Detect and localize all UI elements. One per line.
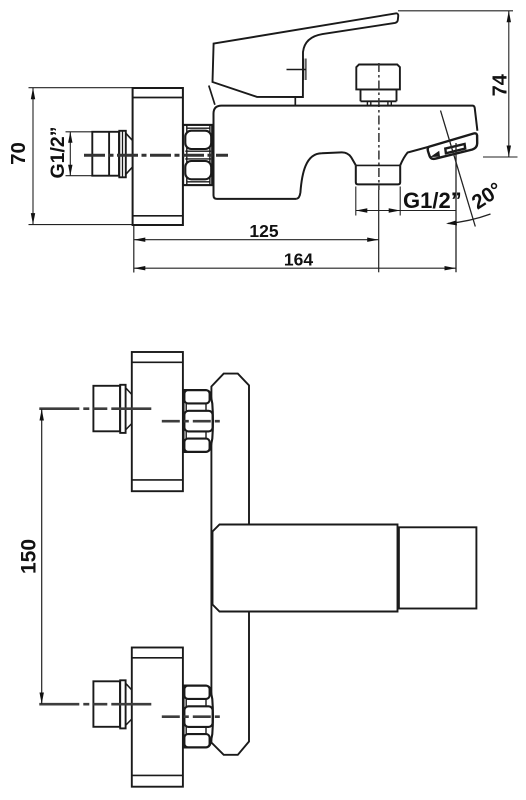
dimension 70 extension line top: [29, 87, 133, 89]
svg-text:164: 164: [284, 250, 313, 270]
20 degree reference line: [441, 111, 476, 227]
inlet union cone top: [126, 388, 132, 395]
dimension 74 arrow up: [507, 11, 511, 22]
handle lever (top view): [213, 13, 399, 97]
shower hose connector foot left: [367, 101, 370, 105]
inlet union flange: [120, 385, 125, 433]
handle index mark horizontal: [287, 69, 307, 71]
dimension 74 line: [508, 11, 510, 157]
hex nut (top view) outer: [183, 125, 212, 185]
dimension 74 extension top: [398, 10, 513, 12]
hex nut pillow top: [184, 390, 209, 403]
hex nut (top view) lower face pillow: [185, 161, 211, 179]
dimension 150 line: [41, 409, 43, 704]
hex nut band upper: [186, 403, 206, 410]
dimension G1/2 (left) extension line bottom: [66, 175, 93, 177]
outlet G1/2 arrow left: [356, 208, 368, 212]
handle skirt left edge: [209, 86, 215, 105]
spout boot (top view): [428, 133, 477, 159]
dimension G1/2 (left) line: [69, 132, 71, 176]
escutcheon lip top: [132, 361, 183, 363]
dimension 74 arrow down: [507, 146, 511, 158]
hex nut (top view) inner vertical line right: [209, 125, 211, 185]
dimension 164 arrow left: [134, 266, 146, 270]
dimension 125 arrow right: [367, 238, 379, 242]
dimension 125/164 left extension line: [133, 226, 135, 273]
vertical column body (front view): [211, 374, 249, 755]
svg-text:70: 70: [7, 142, 30, 165]
dimension 125 line: [134, 239, 379, 241]
hex nut (top view) upper face pillow: [185, 131, 211, 149]
wall plate lip line top: [133, 97, 183, 99]
dimension 164 line: [134, 267, 456, 269]
20 degree arc arrowhead: [446, 220, 457, 225]
dimension 125 arrow left: [134, 238, 146, 242]
spout tip vertical extension line: [455, 143, 457, 272]
outlet G1/2 extension line right: [399, 187, 401, 216]
svg-text:150: 150: [17, 539, 40, 574]
hex nut band lower: [186, 431, 206, 438]
outlet centerline extension (vertical): [378, 190, 380, 272]
dimension 70 arrow down: [31, 213, 35, 225]
wall plate lip line bottom: [133, 215, 183, 217]
inlet union fitting (top view) flange inner line: [122, 131, 124, 178]
hex nut pillow middle: [184, 411, 212, 432]
nut centerline (horizontal): [162, 420, 224, 423]
top mount group: [39, 352, 224, 491]
svg-text:125: 125: [249, 221, 278, 241]
outlet nipple top line: [356, 164, 400, 166]
hex nut (top view) top sliver line: [187, 127, 210, 129]
inlet union fitting (top view) body: [92, 132, 119, 176]
hex nut (top view) bottom sliver line: [187, 181, 210, 183]
shower hose connector (top view) upper block: [356, 65, 400, 90]
wall escutcheon (front view, top): [132, 352, 183, 491]
inlet union fitting (top view) divider line: [108, 132, 110, 176]
shower hose connector foot right: [388, 101, 391, 105]
dimension 70 extension line bottom: [29, 224, 133, 226]
bottom mount group (copy of top mount): [39, 648, 224, 787]
hex nut silhouette (front view): [184, 390, 213, 452]
inlet union fitting (top view) cone top edge: [126, 133, 133, 140]
dimension G1/2 (left) arrow up: [68, 132, 72, 143]
outlet G1/2 extension line left: [355, 187, 357, 216]
inlet union fitting (top view) cone bottom edge: [126, 167, 133, 174]
hex nut (top view) mid line lower: [185, 158, 211, 160]
dimension 150 arrow down: [40, 693, 44, 705]
svg-text:74: 74: [490, 73, 512, 96]
20 degree arc: [448, 214, 491, 224]
outlet G1/2 dimension line: [356, 210, 456, 212]
dimension 74 extension bottom: [483, 156, 518, 158]
hex nut (top view) inner vertical line left: [186, 125, 188, 185]
hex nut (top view) mid line upper: [185, 150, 211, 152]
mixer body underside fillet and flare: [296, 147, 429, 199]
inlet union fitting (top view) flange: [119, 131, 126, 178]
dimension 70 arrow up: [31, 88, 35, 100]
horizontal spout body (front view): [213, 525, 398, 612]
dimension 70 line: [32, 88, 34, 225]
shower hose connector (top view) lower band: [361, 89, 397, 101]
svg-text:20°: 20°: [468, 178, 507, 214]
escutcheon lip bottom: [132, 479, 183, 481]
shower connector centerline (dashed vertical): [378, 63, 380, 190]
handle index mark vertical: [303, 59, 305, 81]
dimension 150 arrow up: [40, 409, 44, 421]
inlet centerline (horizontal): [39, 407, 151, 410]
hex nut pillow bottom: [184, 439, 209, 452]
outlet nipple (top view): [356, 166, 400, 185]
dimension 164 arrow right: [445, 266, 457, 270]
inlet union cone bottom: [126, 424, 132, 430]
inlet union fitting box: [93, 386, 120, 432]
spout outlet square (front view): [399, 527, 477, 608]
dimension G1/2 (left) extension line top: [66, 131, 93, 133]
svg-text:G1/2”: G1/2”: [47, 126, 69, 178]
svg-text:G1/2”: G1/2”: [403, 188, 462, 213]
spout aerator slab: [445, 144, 465, 153]
mixer body (top view) outline: [214, 106, 478, 199]
handle skirt right edge: [294, 97, 296, 105]
outlet G1/2 arrow right: [389, 208, 401, 212]
dimension G1/2 (left) arrow down: [68, 165, 72, 176]
wall plate escutcheon (top view): [133, 88, 183, 225]
mixer centerline (top view): [84, 154, 228, 157]
spout inner shadow wedge: [430, 151, 440, 157]
